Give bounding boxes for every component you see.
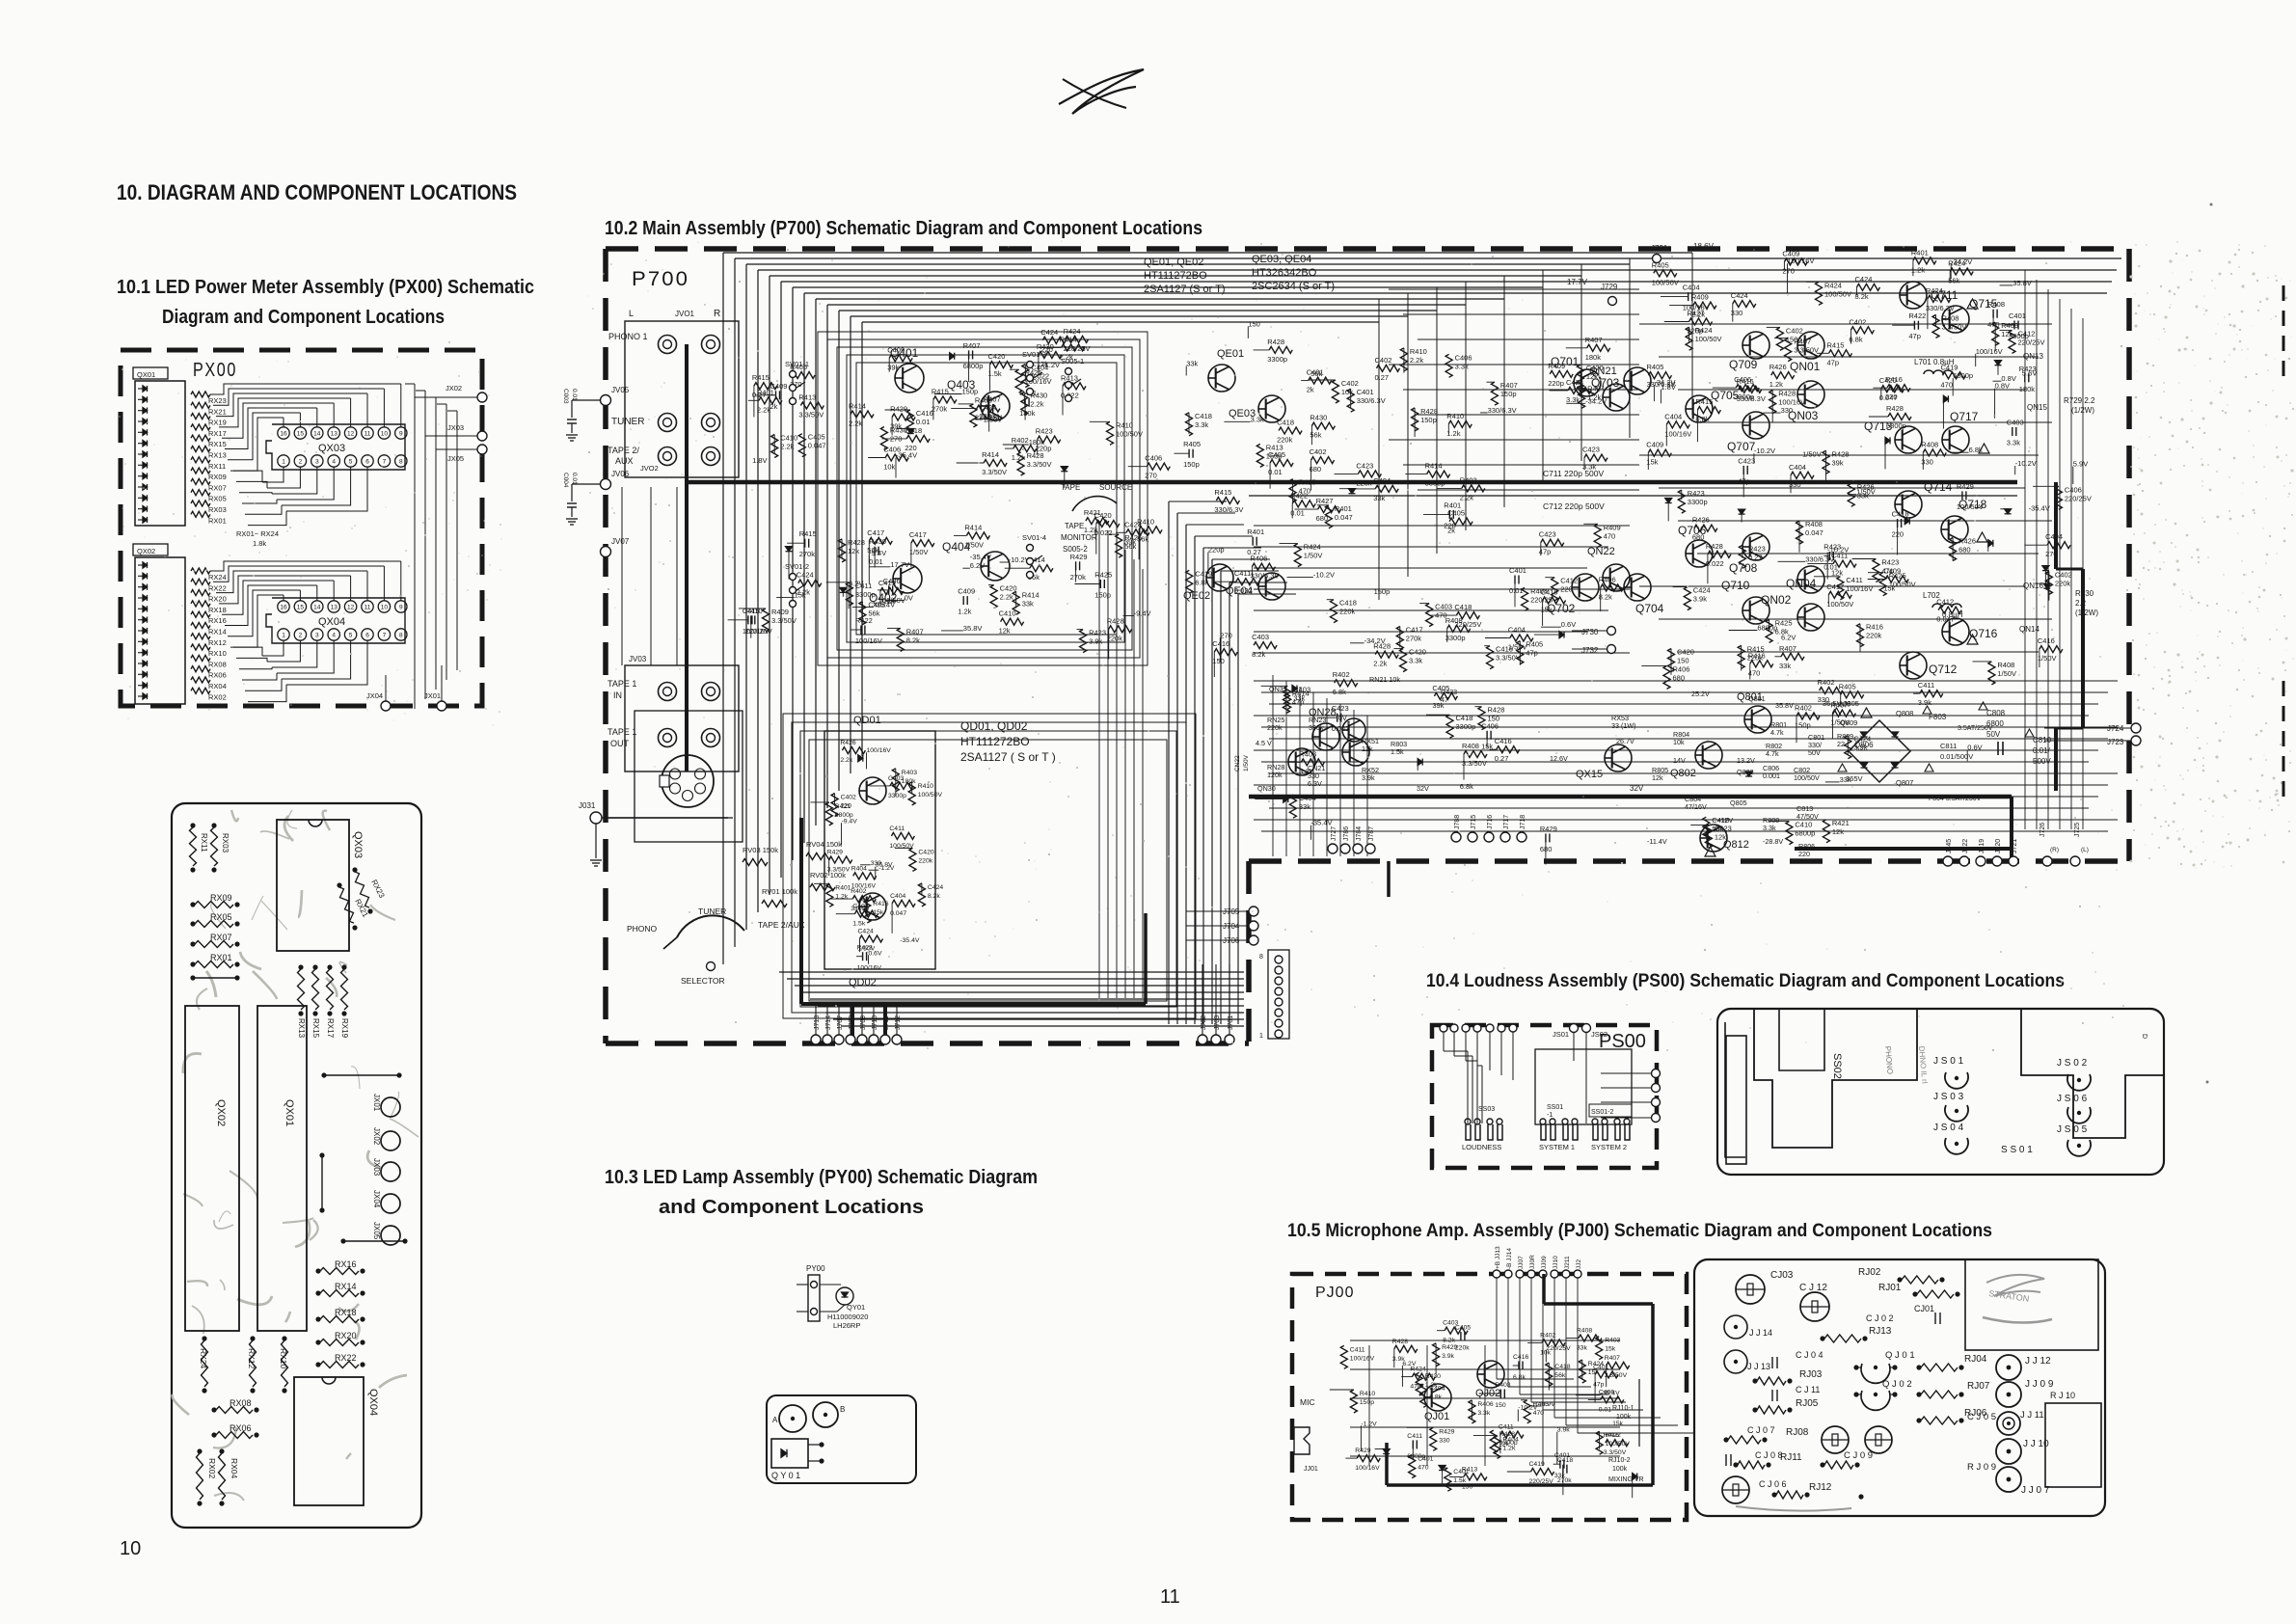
svg-text:R429: R429 [1439,1428,1454,1435]
svg-text:100/16V: 100/16V [1355,1465,1380,1472]
svg-text:C411: C411 [1846,576,1862,584]
svg-text:1/50V: 1/50V [2038,654,2057,663]
svg-text:16: 16 [280,605,287,611]
svg-text:J S 0 2: J S 0 2 [2057,1058,2088,1069]
svg-text:100/16V: 100/16V [1350,1355,1375,1362]
svg-text:10.4 Loudness Assembly (PS00: 10.4 Loudness Assembly (PS00) Schematic … [1426,971,2065,991]
svg-text:R415: R415 [799,529,817,538]
svg-text:270: 270 [1145,472,1157,480]
svg-text:180k: 180k [1029,438,1045,447]
svg-text:PHONO: PHONO [627,924,658,934]
svg-text:100/50V: 100/50V [1957,502,1984,511]
svg-text:0.27: 0.27 [1247,548,1261,556]
svg-text:12k: 12k [999,627,1011,636]
svg-text:470: 470 [1299,487,1311,496]
svg-text:100/16V: 100/16V [867,747,892,754]
svg-text:C411: C411 [889,826,905,832]
svg-text:J S 0 6: J S 0 6 [2057,1094,2088,1104]
svg-text:OUT: OUT [610,739,630,748]
svg-text:2.2k: 2.2k [1373,660,1387,668]
svg-text:SS01-2: SS01-2 [1591,1109,1613,1116]
svg-text:Q712: Q712 [1929,663,1958,676]
svg-text:RX22: RX22 [335,1353,357,1363]
svg-text:C401: C401 [1357,388,1374,396]
svg-text:-35.4V: -35.4V [900,937,919,944]
svg-text:3.3k: 3.3k [1251,415,1264,423]
svg-text:15: 15 [297,431,305,438]
svg-text:0.6V: 0.6V [1967,744,1982,752]
svg-text:12k: 12k [1832,827,1844,836]
svg-text:C420: C420 [1094,511,1112,520]
svg-text:-11.4V: -11.4V [1647,837,1667,846]
svg-text:1: 1 [282,633,285,639]
svg-text:JX02: JX02 [446,384,462,392]
svg-text:680: 680 [1692,533,1705,542]
svg-text:-9.4V: -9.4V [869,549,886,557]
svg-text:2.2k: 2.2k [780,443,794,451]
svg-text:J730: J730 [1581,628,1599,636]
svg-text:Q710: Q710 [1721,579,1750,592]
svg-text:-9.4V: -9.4V [842,818,858,825]
svg-text:C420: C420 [988,352,1006,361]
svg-text:7: 7 [383,633,387,639]
svg-text:R415: R415 [1214,488,1231,497]
svg-text:RX13: RX13 [208,451,227,460]
svg-text:R425: R425 [1775,618,1793,627]
svg-text:25.2V: 25.2V [1691,690,1710,698]
svg-text:150: 150 [1248,319,1260,328]
svg-text:RX17: RX17 [326,1018,335,1039]
svg-text:C424: C424 [1124,520,1142,528]
svg-text:150: 150 [1495,1402,1506,1409]
svg-text:Q709: Q709 [1729,358,1758,371]
svg-text:7: 7 [383,459,387,466]
svg-text:3.3k: 3.3k [1195,420,1208,429]
svg-text:R414: R414 [1425,462,1443,471]
svg-text:JV07: JV07 [611,537,630,546]
svg-text:6.8k: 6.8k [1513,1374,1526,1381]
svg-text:C424: C424 [979,403,996,412]
svg-text:220k: 220k [1267,723,1283,732]
svg-text:100k: 100k [1616,1414,1632,1421]
svg-text:R409: R409 [1691,293,1709,302]
svg-text:15k: 15k [1883,584,1895,593]
svg-text:RJ02: RJ02 [1858,1267,1881,1278]
svg-text:-10.2V: -10.2V [2015,459,2037,468]
svg-text:TUNER: TUNER [611,417,644,427]
svg-text:R407: R407 [1794,338,1811,346]
svg-text:33k: 33k [1554,1473,1566,1479]
svg-text:JX03: JX03 [372,1158,381,1177]
svg-text:QN13: QN13 [2023,352,2043,361]
svg-text:JJ0R: JJ0R [1529,1255,1536,1269]
svg-text:RX02: RX02 [207,1458,217,1479]
svg-text:150: 150 [1462,1483,1473,1490]
svg-text:QE01: QE01 [1217,348,1244,360]
svg-text:JX01: JX01 [372,1094,381,1112]
svg-text:SV01-2: SV01-2 [785,562,809,571]
svg-text:RX01: RX01 [208,516,227,525]
svg-text:1/50V: 1/50V [1243,754,1250,771]
svg-text:C404: C404 [1373,476,1391,485]
svg-text:330/6.3V: 330/6.3V [1488,406,1517,415]
svg-text:RX10: RX10 [279,1348,288,1369]
svg-text:3.9k: 3.9k [1918,698,1931,707]
svg-text:R J 0 9: R J 0 9 [1967,1462,1996,1473]
svg-text:4.5 V: 4.5 V [1256,739,1272,747]
svg-text:C402: C402 [841,795,856,801]
svg-text:C423: C423 [1356,461,1373,470]
svg-text:6800p: 6800p [1953,371,1973,380]
svg-text:TAPE 2/: TAPE 2/ [608,446,639,455]
svg-text:PHONO 1: PHONO 1 [608,332,648,341]
svg-text:C424: C424 [1731,291,1748,300]
svg-text:RX09: RX09 [210,893,232,903]
svg-text:C418: C418 [1195,412,1212,420]
svg-text:R408: R408 [1577,1328,1592,1335]
svg-text:PX00: PX00 [193,360,237,381]
svg-text:C409: C409 [958,587,975,596]
svg-text:R729 2.2: R729 2.2 [2064,396,2095,405]
svg-text:JX05: JX05 [447,454,464,463]
svg-text:R429: R429 [1540,825,1557,833]
svg-text:3.3/50V: 3.3/50V [798,411,824,420]
svg-text:RX18: RX18 [335,1308,357,1317]
svg-text:100k: 100k [1612,1466,1628,1473]
svg-text:R428: R428 [1107,616,1124,625]
svg-text:220k: 220k [1339,608,1356,616]
svg-text:3300p: 3300p [1456,722,1476,731]
svg-text:3300p: 3300p [1267,355,1287,364]
svg-text:C402: C402 [1375,356,1392,365]
svg-text:and Component Locations: and Component Locations [659,1197,924,1218]
svg-text:J J 0 7: J J 0 7 [2021,1485,2050,1496]
svg-text:12k: 12k [1362,744,1373,753]
svg-text:220: 220 [1798,850,1810,858]
svg-text:J717: J717 [1503,815,1510,829]
svg-text:RX15: RX15 [208,440,227,448]
svg-text:C403: C403 [1443,1320,1458,1327]
svg-text:Q803: Q803 [1737,768,1754,776]
svg-text:J786: J786 [1343,826,1350,841]
svg-text:C004: C004 [562,473,569,488]
svg-text:R408: R408 [1445,616,1463,625]
svg-text:R403: R403 [1460,475,1477,484]
svg-text:RX11: RX11 [208,462,226,471]
svg-text:1.5k: 1.5k [1453,1477,1466,1484]
svg-text:150p: 150p [1266,451,1283,460]
svg-text:J714: J714 [825,1015,832,1030]
svg-text:RX05: RX05 [210,912,232,922]
svg-text:R402: R402 [1540,1332,1555,1339]
svg-text:16: 16 [280,431,287,438]
svg-text:3300p: 3300p [855,590,876,599]
svg-text:C811: C811 [1940,742,1957,750]
svg-text:47p: 47p [1827,358,1840,366]
svg-text:J788: J788 [1454,815,1461,829]
svg-text:J S 0 3: J S 0 3 [1933,1092,1964,1102]
svg-text:6800p: 6800p [1886,421,1906,430]
svg-text:2.2k: 2.2k [1460,493,1473,501]
svg-text:8: 8 [399,633,403,639]
svg-text:0.022: 0.022 [1234,586,1253,595]
svg-text:100/50V: 100/50V [1794,773,1820,782]
svg-text:680: 680 [1958,546,1971,555]
svg-text:RX05: RX05 [208,495,227,503]
svg-text:S005-1: S005-1 [1061,357,1084,365]
svg-text:J721: J721 [2012,839,2018,853]
svg-text:RX04: RX04 [230,1458,239,1479]
svg-text:RX03: RX03 [221,833,230,853]
svg-text:6.8k: 6.8k [1429,1394,1442,1400]
svg-text:SOURCE: SOURCE [1099,483,1132,492]
svg-text:220/25V: 220/25V [2065,494,2092,502]
svg-text:C406: C406 [1455,353,1472,362]
svg-text:R409: R409 [1604,523,1621,531]
svg-text:R429: R429 [1355,1448,1370,1454]
svg-text:R429: R429 [1957,482,1974,491]
svg-text:IN: IN [613,690,622,700]
svg-text:-34.2V: -34.2V [1951,257,1972,266]
svg-text:RX11: RX11 [200,833,208,853]
svg-text:3300p: 3300p [888,793,906,799]
svg-text:C401: C401 [1453,1469,1469,1475]
svg-text:-28.8V: -28.8V [1763,837,1783,846]
svg-text:MIC: MIC [1300,1397,1315,1407]
svg-text:10.3 LED Lamp Assembly (PY00: 10.3 LED Lamp Assembly (PY00) Schematic … [605,1167,1038,1188]
svg-text:A: A [772,1416,778,1424]
svg-text:150p: 150p [1374,587,1391,596]
svg-text:C401: C401 [1554,1452,1570,1459]
svg-text:C410: C410 [780,434,797,443]
svg-text:TAPE: TAPE [1061,483,1080,492]
svg-text:R408: R408 [1805,520,1823,528]
svg-text:C420: C420 [1879,376,1897,385]
svg-text:C404: C404 [1508,626,1526,635]
svg-text:R428: R428 [1778,390,1796,398]
svg-text:3.3/50V: 3.3/50V [827,867,851,874]
svg-text:TUNER: TUNER [698,907,726,916]
svg-text:R407: R407 [906,627,924,636]
svg-text:C401: C401 [1593,1364,1608,1370]
svg-text:5.9V: 5.9V [2073,460,2088,469]
svg-text:Q807: Q807 [1896,778,1913,787]
svg-text:33k: 33k [1779,662,1791,670]
svg-text:150p: 150p [1360,1399,1374,1406]
svg-text:C412: C412 [2018,329,2036,338]
svg-text:C416: C416 [1496,645,1513,654]
svg-text:6.2V: 6.2V [970,561,985,570]
svg-text:C420: C420 [918,849,933,855]
svg-text:J713: J713 [814,1015,821,1030]
svg-text:R402: R402 [1012,436,1029,445]
svg-text:J S 0 4: J S 0 4 [1933,1123,1964,1133]
svg-text:R428: R428 [1832,449,1850,458]
svg-text:CN22: CN22 [1234,755,1241,771]
svg-text:C404: C404 [1429,1385,1445,1392]
svg-text:0.047: 0.047 [890,910,906,917]
svg-text:R403: R403 [902,770,917,776]
svg-text:10.5 Microphone Amp. Assembl: 10.5 Microphone Amp. Assembly (PJ00) Sch… [1287,1221,1992,1241]
svg-text:J729: J729 [1601,283,1618,291]
svg-text:R406: R406 [1673,664,1690,673]
svg-text:R428: R428 [1706,542,1723,551]
svg-text:SELECTOR: SELECTOR [681,976,725,986]
svg-text:13: 13 [331,431,338,438]
svg-text:0.6V: 0.6V [1561,620,1576,629]
svg-text:SS01: SS01 [1547,1104,1563,1111]
svg-text:0V: 0V [905,593,913,602]
svg-text:12: 12 [347,605,355,611]
svg-text:6800p: 6800p [1795,829,1815,838]
svg-text:120k: 120k [1267,771,1283,779]
svg-text:R406: R406 [1599,576,1616,584]
svg-text:47p: 47p [1410,1384,1421,1391]
svg-text:150p: 150p [1795,721,1811,730]
svg-text:100/16V: 100/16V [1846,584,1873,593]
svg-text:B: B [840,1405,845,1414]
svg-text:R429: R429 [890,405,907,414]
svg-text:RX07: RX07 [208,483,227,492]
svg-text:10k: 10k [1673,738,1685,746]
svg-text:C417: C417 [867,528,884,537]
svg-text:R427: R427 [1316,497,1334,505]
svg-text:JX04: JX04 [372,1190,381,1208]
svg-text:-35.4V: -35.4V [874,600,895,609]
svg-text:RX08: RX08 [230,1398,252,1408]
svg-text:C403: C403 [1435,603,1452,611]
svg-text:R405: R405 [1647,363,1664,371]
svg-text:0.01: 0.01 [1599,1406,1611,1413]
svg-text:365V: 365V [1846,774,1863,783]
svg-text:RJ04: RJ04 [1964,1354,1987,1365]
svg-text:R405: R405 [1526,640,1543,649]
svg-text:RX09: RX09 [208,473,227,481]
svg-text:150p: 150p [1094,591,1111,600]
svg-text:R405: R405 [1183,440,1201,448]
svg-text:1.2k: 1.2k [1587,392,1601,401]
svg-text:5: 5 [349,459,353,466]
svg-text:R407: R407 [963,341,981,350]
svg-text:R408: R408 [1921,440,1938,448]
svg-text:Q704: Q704 [1635,602,1664,615]
svg-text:R410: R410 [918,783,933,790]
svg-text:330: 330 [1781,406,1794,415]
svg-text:39k: 39k [1124,537,1136,546]
svg-text:1.8V: 1.8V [1661,383,1675,392]
svg-text:R415: R415 [1299,478,1316,487]
svg-text:Q717: Q717 [1950,410,1979,423]
svg-text:C411: C411 [1918,681,1934,690]
svg-text:R421: R421 [1832,819,1850,827]
svg-text:C418: C418 [1277,419,1294,427]
svg-text:R410: R410 [1410,347,1427,356]
svg-text:JS02: JS02 [1591,1030,1607,1039]
svg-text:RX04: RX04 [208,682,227,690]
svg-text:150: 150 [1677,657,1689,665]
svg-text:QD01, QD02: QD01, QD02 [960,719,1028,733]
svg-text:C417: C417 [909,530,927,539]
svg-text:RX06: RX06 [230,1423,252,1433]
svg-text:C404: C404 [1299,794,1316,802]
svg-text:3.3k: 3.3k [1477,1410,1490,1417]
svg-text:C406: C406 [1145,454,1162,463]
svg-text:C410: C410 [1795,821,1812,829]
svg-text:TAPE 1: TAPE 1 [608,727,636,737]
svg-text:R413: R413 [1266,443,1283,451]
svg-text:J787: J787 [1368,826,1375,841]
svg-text:R428: R428 [1373,642,1391,651]
svg-text:Q714: Q714 [1924,480,1953,494]
svg-text:R426: R426 [1769,363,1787,371]
svg-text:3300p: 3300p [1688,498,1708,506]
svg-text:C416: C416 [1513,1354,1528,1361]
svg-text:3.3/50V: 3.3/50V [982,468,1007,476]
svg-text:LOUDNESS: LOUDNESS [1462,1143,1501,1151]
svg-text:JX02: JX02 [372,1127,381,1146]
svg-text:J J 11: J J 11 [2020,1410,2044,1421]
svg-text:JX05: JX05 [372,1222,381,1240]
svg-text:TAPE 1: TAPE 1 [608,679,636,689]
svg-text:470: 470 [1604,531,1616,540]
svg-text:C423: C423 [1539,530,1556,539]
svg-text:330/6.3V: 330/6.3V [1926,304,1955,312]
svg-text:390k: 390k [1309,723,1324,732]
svg-text:Q808: Q808 [1896,709,1913,717]
svg-text:C J 0 7: C J 0 7 [1747,1425,1775,1435]
svg-text:(L): (L) [2081,847,2089,853]
svg-text:5: 5 [349,633,353,639]
svg-text:C405: C405 [1447,509,1465,518]
svg-text:0.047: 0.047 [1936,615,1955,624]
svg-text:RX22: RX22 [208,583,227,592]
svg-text:Q801: Q801 [1748,694,1766,703]
svg-text:R430: R430 [1310,414,1327,422]
svg-text:J711: J711 [883,1015,890,1030]
svg-text:3.3/50V: 3.3/50V [1027,460,1052,469]
svg-text:C424: C424 [797,571,814,580]
svg-text:MIXING VR: MIXING VR [1608,1476,1644,1483]
svg-text:220k: 220k [1356,478,1372,487]
svg-text:J745: J745 [1946,839,1953,853]
svg-text:JVO1: JVO1 [675,310,695,318]
svg-text:J718: J718 [1520,815,1526,829]
svg-text:J709: J709 [860,1015,867,1030]
svg-text:R421: R421 [835,803,851,810]
svg-text:JX01: JX01 [424,691,441,700]
svg-text:3300p: 3300p [851,906,869,912]
svg-text:1/50V: 1/50V [1304,552,1323,560]
svg-text:100/50V: 100/50V [889,843,914,850]
svg-text:Diagram and Component Location: Diagram and Component Locations [162,307,445,328]
svg-text:C712 220p 500V: C712 220p 500V [1543,501,1605,511]
svg-text:C411: C411 [1350,1346,1365,1353]
svg-text:C401: C401 [1509,566,1526,575]
svg-text:R416: R416 [873,901,888,907]
svg-text:220p: 220p [1548,379,1564,388]
svg-text:R401: R401 [835,884,851,891]
svg-text:QX01: QX01 [284,1099,295,1126]
svg-text:SV01-3: SV01-3 [1022,350,1046,359]
svg-text:33k: 33k [1577,1345,1588,1352]
svg-text:J211: J211 [1564,1256,1571,1269]
svg-text:C401: C401 [2009,311,2026,320]
svg-text:C424: C424 [1693,586,1711,595]
svg-text:RX08: RX08 [208,660,227,668]
svg-text:R401: R401 [1247,528,1264,536]
svg-text:C J 12: C J 12 [1799,1283,1827,1293]
svg-text:0.022: 0.022 [1094,528,1113,537]
